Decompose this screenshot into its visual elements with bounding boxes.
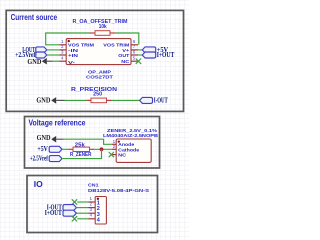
sheet box Voltage reference [25,117,160,169]
svg-text:I-OUT: I-OUT [154,98,168,105]
svg-text:Current source: Current source [11,12,58,22]
svg-text:I+OUT: I+OUT [157,52,175,59]
svg-text:GND: GND [37,134,51,142]
cn pin 2 stub [89,207,96,209]
svg-text:DB128V-5.08-4P-GN-S: DB128V-5.08-4P-GN-S [88,188,149,193]
svg-text:IO: IO [34,179,43,189]
wire cn pin2 [76,207,88,209]
wire cn pin4 [77,218,88,220]
svg-text:R_ZENER: R_ZENER [70,152,92,158]
svg-text:10k: 10k [99,24,107,30]
no-connect X cn pin4 [72,216,77,221]
svg-text:GND: GND [36,96,50,104]
wire pin6 to I+OUT [138,54,142,56]
svg-text:V+: V+ [122,48,129,54]
resistor R_OA_OFFSET_TRIM [95,31,110,36]
svg-text:-IN: -IN [68,48,79,54]
svg-text:V-: V- [68,60,76,66]
svg-text:NC: NC [121,59,130,65]
svg-text:COS27DT: COS27DT [86,75,113,81]
wire +2.5Vref tap [62,149,102,158]
wire cn pin1 [77,201,88,203]
svg-text:+IN: +IN [68,53,79,59]
sheet box IO [27,176,158,233]
pin 7 stub [131,49,138,51]
svg-text:NC: NC [118,152,127,158]
cathode stub [112,148,116,150]
op-amp U1 body [66,39,131,65]
zener pin1 marker [118,141,120,143]
svg-text:VOS TRIM: VOS TRIM [103,43,129,49]
op-amp pin1 marker [68,40,70,42]
wire trim left [46,33,90,45]
pin 2 stub [60,49,67,51]
port I+OUT [142,52,155,58]
svg-text:Cathode: Cathode [118,147,139,153]
svg-text:Voltage reference: Voltage reference [29,118,86,128]
pin 5 stub [131,60,138,62]
wire +5V to R_ZENER [62,148,69,150]
cn pin 4 stub [89,218,96,220]
port +5V [142,47,155,53]
connector pin1 marker [97,198,99,200]
junction dot [100,147,104,151]
wire +2.5Vref to pin3 [47,54,60,56]
pin 3 stub [60,54,67,56]
wire GND to R_PRECISION [65,99,87,101]
pin 4 stub [60,60,67,62]
svg-text:GND: GND [27,58,41,66]
wire pin7 to +5V [138,49,142,51]
NC stub [112,154,116,156]
pin 1 stub [60,44,67,46]
cn pin 1 stub [89,201,96,203]
svg-text:+5V: +5V [37,146,48,153]
connector CN1 body [95,197,106,225]
wire I-OUT to pin2 [47,49,60,51]
wire R_ZENER to cathode [90,148,95,150]
svg-text:250: 250 [93,92,102,98]
zener D1 body [116,139,151,162]
resistor R_ZENER [73,147,90,151]
svg-text:VOS TRIM: VOS TRIM [68,43,94,49]
sheet box Current source [6,10,183,111]
resistor R_PRECISION [91,98,107,103]
anode stub [112,143,116,145]
no-connect X zener [109,152,114,157]
no-connect X cn pin1 [72,199,77,204]
no-connect X pin5 [136,59,141,64]
pin 6 stub [131,54,138,56]
wire trim right [110,32,116,34]
svg-text:OUT: OUT [118,53,129,59]
svg-text:LM4040AIZ-2.5NOPB: LM4040AIZ-2.5NOPB [103,133,159,138]
pin 8 stub [131,44,138,46]
svg-text:I+OUT: I+OUT [45,210,62,217]
port I-OUT right [140,97,153,103]
svg-text:Anode: Anode [118,142,134,148]
cn pin 3 stub [89,212,96,214]
svg-text:+2.5Vref: +2.5Vref [30,156,49,163]
wire GND to pin4 [53,60,60,62]
wire cn pin3 [76,212,88,214]
wire R_PRECISION to I-OUT [107,99,112,101]
wire GND to anode [64,139,112,144]
